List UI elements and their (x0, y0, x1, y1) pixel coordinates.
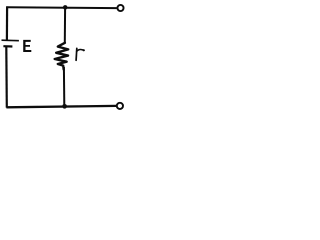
wire middle vertical upper (64, 8, 66, 44)
wire left vertical lower (5, 47, 8, 108)
terminal circle bottom (117, 103, 123, 109)
wire left vertical upper (6, 6, 8, 40)
terminal circle top (117, 5, 123, 11)
junction dot bottom (62, 104, 67, 109)
resistor r zigzag (55, 43, 68, 70)
wire bottom horizontal (6, 106, 116, 107)
wire top horizontal (6, 6, 116, 9)
label r (75, 48, 78, 60)
label E (23, 40, 31, 52)
battery E long plate (2, 39, 19, 42)
junction dot top (63, 5, 68, 9)
wire middle vertical lower (63, 67, 65, 106)
battery E short plate (3, 45, 12, 47)
